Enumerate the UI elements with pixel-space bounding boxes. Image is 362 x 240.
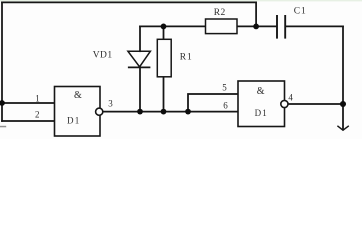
bubble gate2 output bbox=[281, 100, 288, 107]
junction node R1 top bbox=[161, 24, 167, 30]
wire right vertical bbox=[342, 26, 344, 129]
wire top rail seg3 bbox=[286, 25, 344, 27]
wire top feedback bbox=[2, 1, 256, 3]
wire pin1 bbox=[2, 102, 55, 104]
svg-text:5: 5 bbox=[222, 82, 227, 92]
capacitor C1 bbox=[277, 15, 285, 39]
wire diode branch anode bbox=[139, 26, 141, 51]
gate U1b box bbox=[238, 81, 285, 127]
svg-text:3: 3 bbox=[108, 98, 113, 108]
resistor R2 bbox=[206, 19, 238, 34]
junction R1 bottom bbox=[161, 109, 167, 115]
wire pin5 branch bbox=[188, 94, 238, 112]
svg-text:2: 2 bbox=[35, 109, 40, 119]
gate U1a box bbox=[55, 87, 101, 137]
svg-text:D1: D1 bbox=[255, 108, 268, 118]
wire R1 branch top bbox=[163, 26, 165, 39]
wire top rail seg2 bbox=[237, 25, 277, 27]
wire diode branch cathode bbox=[139, 67, 141, 111]
junction right wire out bbox=[340, 101, 346, 107]
wire output1 to pin6 bbox=[103, 111, 239, 113]
wire top rail seg1 bbox=[140, 25, 206, 27]
svg-text:C1: C1 bbox=[294, 7, 307, 17]
wire drop to node A bbox=[255, 2, 257, 26]
junction pin5 branch bbox=[185, 109, 191, 115]
wire left feedback bbox=[1, 2, 3, 121]
svg-text:6: 6 bbox=[223, 100, 228, 110]
diode VD1 bbox=[128, 51, 150, 67]
wire cut-off mark bottom-left bbox=[0, 126, 6, 128]
svg-text:D1: D1 bbox=[67, 115, 80, 125]
arrow down bbox=[337, 126, 348, 130]
svg-text:VD1: VD1 bbox=[93, 50, 113, 60]
wire pin2 bbox=[2, 120, 55, 122]
svg-text:R2: R2 bbox=[214, 8, 226, 18]
svg-text:&: & bbox=[257, 86, 265, 97]
svg-text:R1: R1 bbox=[180, 53, 193, 63]
resistor R1 bbox=[157, 39, 171, 77]
wire output2 bbox=[288, 103, 343, 105]
junction diode bottom bbox=[137, 109, 143, 115]
svg-text:4: 4 bbox=[288, 92, 293, 102]
svg-text:1: 1 bbox=[35, 93, 40, 103]
green tint strip bbox=[0, 0, 362, 1]
bubble gate1 output bbox=[96, 108, 103, 115]
svg-text:&: & bbox=[74, 90, 82, 101]
junction node A bbox=[253, 24, 259, 30]
wire R1 branch bottom bbox=[163, 77, 165, 112]
junction pin1 left bbox=[0, 100, 5, 106]
